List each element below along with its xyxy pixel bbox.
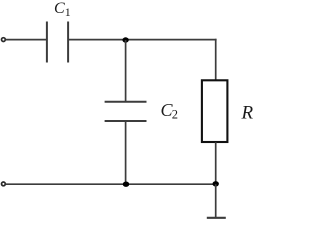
wire to ground: [215, 184, 217, 217]
input terminal bottom: [2, 182, 6, 186]
capacitor C2 bottom plate: [105, 120, 147, 122]
wire bottom: [6, 183, 216, 185]
svg-text:2: 2: [172, 108, 178, 122]
capacitor C1 left plate: [46, 22, 48, 63]
capacitor C2 top plate: [105, 101, 147, 103]
wire top-left: [6, 39, 47, 41]
wire C2 branch upper: [125, 40, 127, 102]
wire R to bottom node: [215, 142, 217, 184]
svg-text:C: C: [54, 0, 65, 17]
input terminal top: [2, 38, 6, 42]
capacitor C1 right plate: [67, 22, 69, 63]
resistor R: [202, 80, 228, 142]
node top junction: [122, 37, 128, 42]
node right junction: [213, 181, 219, 186]
svg-text:R: R: [241, 102, 254, 123]
node bottom junction: [123, 182, 129, 187]
wire C2 branch lower: [125, 121, 127, 184]
wire C1 to corner: [68, 39, 217, 41]
ground: [207, 217, 226, 219]
svg-text:1: 1: [65, 5, 71, 19]
wire right vertical to R: [215, 39, 217, 80]
